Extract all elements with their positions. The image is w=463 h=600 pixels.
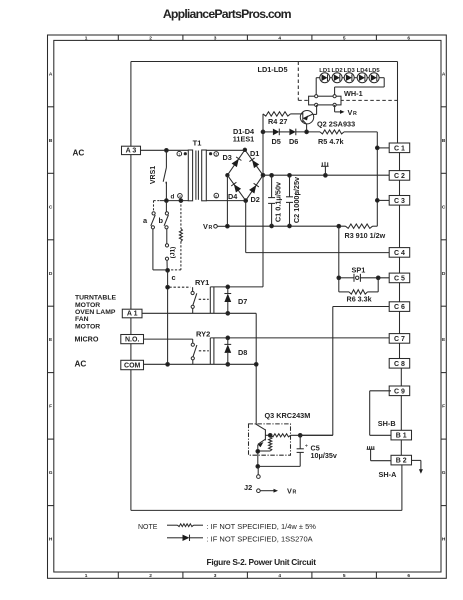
LEDs LD1-LD5 bbox=[316, 68, 380, 83]
svg-text:D2: D2 bbox=[251, 195, 260, 204]
node C2 cap top junction bbox=[288, 173, 292, 177]
terminal mark d pin 4 bbox=[171, 193, 183, 200]
svg-text:H: H bbox=[442, 537, 446, 543]
label R6 3.3k bbox=[347, 294, 372, 303]
svg-text:5: 5 bbox=[343, 573, 346, 579]
label MICRO bbox=[75, 335, 99, 344]
main circuit box right edge bbox=[397, 62, 399, 144]
transistor Q2 2SA933 bbox=[291, 105, 317, 132]
svg-text:C2 1000μ/25v: C2 1000μ/25v bbox=[292, 176, 301, 223]
svg-text:1: 1 bbox=[85, 573, 88, 579]
label RY1 bbox=[195, 278, 209, 287]
node COM c junction bbox=[166, 362, 170, 366]
svg-text:R5 4.7k: R5 4.7k bbox=[318, 137, 344, 146]
svg-text:C 8: C 8 bbox=[394, 361, 405, 368]
resistor R4 27 bbox=[263, 112, 291, 116]
diode D5 bbox=[273, 129, 279, 136]
wire RY2 coil top rail to C7 bbox=[210, 337, 389, 339]
label RY2 bbox=[196, 329, 210, 338]
svg-text:COM: COM bbox=[124, 363, 141, 370]
capacitor C1 0.1u/50v bbox=[268, 175, 275, 226]
label D1 bbox=[250, 149, 259, 158]
main circuit box bottom edge bbox=[131, 509, 402, 511]
jumper J1 dashed alternate path bbox=[169, 201, 183, 270]
node bridge AC bottom junction bbox=[244, 199, 248, 203]
node bridge DC right junction bbox=[261, 173, 265, 177]
svg-text:R3 910 1/2w: R3 910 1/2w bbox=[345, 231, 386, 240]
svg-text:2: 2 bbox=[149, 573, 152, 579]
relay RY2 actuation dashes bbox=[199, 350, 209, 352]
wire A3 to transformer primary top bbox=[141, 149, 189, 151]
svg-text:3: 3 bbox=[214, 573, 217, 579]
capacitor C2 1000u/25v bbox=[286, 175, 297, 226]
wire bridge right corner vertical bbox=[262, 114, 264, 287]
node c top junction bbox=[166, 268, 170, 272]
node J2 top junction bbox=[256, 465, 260, 469]
svg-text:RY2: RY2 bbox=[196, 329, 210, 338]
label D7 bbox=[238, 297, 247, 306]
svg-text:F: F bbox=[442, 404, 445, 410]
svg-text:b: b bbox=[159, 216, 164, 225]
svg-text:LD1: LD1 bbox=[319, 68, 331, 74]
switch contact a bbox=[151, 201, 166, 270]
node A3 rail junction bbox=[165, 148, 169, 152]
wire NO rail bbox=[144, 339, 193, 343]
svg-text:RY1: RY1 bbox=[195, 278, 209, 287]
label D4 bbox=[228, 192, 238, 201]
svg-text:V: V bbox=[287, 486, 292, 495]
connector NO bbox=[121, 335, 144, 344]
connector B1 bbox=[391, 430, 412, 440]
wire R5 C1 C3 R3 vertical bbox=[376, 132, 378, 226]
svg-text:4: 4 bbox=[179, 195, 181, 199]
label R5 4.7k bbox=[318, 137, 344, 146]
svg-text:T1: T1 bbox=[193, 139, 202, 148]
svg-text:F: F bbox=[49, 404, 52, 410]
connector chain wires bbox=[398, 143, 402, 510]
svg-text:C 1: C 1 bbox=[394, 145, 405, 152]
svg-text:D7: D7 bbox=[238, 297, 247, 306]
svg-text:3: 3 bbox=[214, 36, 217, 42]
svg-text:3: 3 bbox=[215, 153, 217, 157]
wire Q3 emitter to C5 bottom bbox=[258, 465, 300, 467]
node J1 dashed branch junction bbox=[179, 199, 183, 203]
svg-text:WH-1: WH-1 bbox=[344, 89, 363, 98]
node C5 top junction bbox=[298, 433, 302, 437]
wire relay feed vertical bbox=[255, 313, 257, 425]
frame grid coordinates bbox=[49, 36, 446, 580]
terminal VR bbox=[203, 222, 217, 231]
wire RY1 coil top rail bbox=[210, 286, 263, 288]
svg-text:LD1-LD5: LD1-LD5 bbox=[258, 65, 288, 74]
terminal mark pin 3 bbox=[210, 152, 219, 157]
label a bbox=[143, 216, 148, 225]
note legend bbox=[138, 524, 158, 531]
wire A1 rail bbox=[142, 312, 256, 314]
wire B2 to chassis arrow bbox=[412, 460, 423, 473]
wire C1 connector tap bbox=[377, 147, 389, 149]
svg-text:R4 27: R4 27 bbox=[268, 117, 287, 126]
svg-text:10μ/35v: 10μ/35v bbox=[311, 451, 337, 460]
svg-text:LD2: LD2 bbox=[332, 68, 344, 74]
svg-text:A 3: A 3 bbox=[126, 147, 137, 154]
label AC upper bbox=[73, 148, 85, 157]
main circuit box left edge bbox=[130, 62, 132, 511]
label Q2 2SA933 bbox=[317, 120, 355, 129]
transistor Q3 bbox=[256, 424, 271, 466]
capacitor C5 10u/35v bbox=[297, 435, 308, 466]
label SH-B bbox=[378, 419, 396, 428]
svg-text:NOTE: NOTE bbox=[138, 524, 158, 531]
svg-text:SP1: SP1 bbox=[352, 265, 366, 274]
svg-text:R: R bbox=[293, 489, 297, 495]
node C1 tap junction bbox=[375, 146, 379, 150]
svg-text:C 6: C 6 bbox=[394, 304, 405, 311]
wire secondary top to bridge bbox=[206, 149, 245, 151]
svg-text:4: 4 bbox=[278, 36, 281, 42]
svg-text:D5: D5 bbox=[272, 137, 281, 146]
node bridge positive feed at D5 rail bbox=[261, 130, 265, 134]
svg-text:B: B bbox=[49, 138, 53, 144]
node D8 cathode junction bbox=[226, 362, 230, 366]
label C1 0.1u/50v bbox=[273, 181, 282, 222]
svg-text:+: + bbox=[305, 444, 308, 450]
svg-text:1: 1 bbox=[178, 152, 180, 156]
svg-text:D3: D3 bbox=[223, 153, 232, 162]
resistor R5 4.7k bbox=[320, 130, 377, 134]
wire J2 to VR arrow bbox=[260, 489, 278, 493]
svg-text:MOTOR: MOTOR bbox=[75, 323, 100, 330]
svg-text:6: 6 bbox=[407, 36, 410, 42]
connector C4 bbox=[389, 248, 410, 258]
resistor R6 3.3k bbox=[339, 278, 378, 294]
label R3 910 1/2w bbox=[345, 231, 386, 240]
svg-text:LD5: LD5 bbox=[369, 68, 381, 74]
svg-text:MICRO: MICRO bbox=[75, 335, 99, 344]
label WH-1 bbox=[344, 89, 363, 98]
svg-text:D8: D8 bbox=[238, 348, 247, 357]
wire c to RY1 contact dashed bbox=[169, 287, 192, 291]
node COM relay feed junction bbox=[254, 362, 258, 366]
node D7 cathode junction bbox=[226, 311, 230, 315]
connector COM bbox=[121, 360, 144, 369]
svg-text:V: V bbox=[203, 222, 208, 231]
node Q3 base node bbox=[268, 433, 272, 437]
diode D7 bbox=[224, 287, 231, 313]
label TURNTABLE MOTOR OVEN LAMP FAN MOTOR bbox=[75, 295, 116, 331]
svg-text:2: 2 bbox=[149, 36, 152, 42]
svg-text:FAN: FAN bbox=[75, 316, 89, 323]
svg-text:E: E bbox=[442, 337, 446, 343]
svg-text:G: G bbox=[49, 470, 53, 476]
node C1 cap top junction bbox=[270, 173, 274, 177]
ground symbol on C2 rail bbox=[321, 162, 329, 177]
note diode symbol bbox=[167, 535, 203, 541]
resistor Q3 base series bbox=[271, 434, 333, 437]
wire LED right to WH-1 bbox=[335, 78, 385, 97]
node SP1 left junction bbox=[337, 276, 341, 280]
svg-text:(J1): (J1) bbox=[170, 247, 177, 259]
relay contact RY1 bbox=[191, 291, 197, 313]
label D8 bbox=[238, 348, 247, 357]
digital transistor Q3 dashed box bbox=[249, 424, 291, 455]
switch contact b bbox=[164, 201, 168, 244]
wire SH-B loop bbox=[370, 391, 391, 436]
svg-text:J2: J2 bbox=[244, 483, 252, 492]
wire transformer primary bottom rail bbox=[154, 200, 189, 202]
label Q3 KRC243M bbox=[265, 411, 311, 420]
svg-text:C 3: C 3 bbox=[394, 198, 405, 205]
connector C9 bbox=[389, 386, 410, 396]
connector A1 bbox=[122, 309, 142, 318]
svg-text:C: C bbox=[442, 204, 446, 210]
svg-text:: IF NOT SPECIFIED, 1SS270A: : IF NOT SPECIFIED, 1SS270A bbox=[207, 534, 313, 543]
drawing frame inner border bbox=[54, 40, 441, 572]
relay coil RY2 bbox=[210, 338, 214, 364]
node c junction bbox=[166, 285, 170, 289]
label VRS1 bbox=[150, 166, 157, 184]
wire C3 connector tap bbox=[377, 199, 389, 201]
svg-text:G: G bbox=[442, 470, 446, 476]
svg-text:C 2: C 2 bbox=[394, 173, 405, 180]
diode D1 bbox=[249, 158, 259, 168]
wire WH-1 to VR arrow bbox=[335, 105, 345, 114]
main circuit box top edge bbox=[131, 61, 398, 63]
diode D2 bbox=[249, 183, 259, 193]
diode D8 bbox=[224, 338, 231, 364]
wire VR rail bbox=[217, 225, 345, 227]
note diode text bbox=[207, 534, 313, 543]
wire bridge left corner to VR rail bbox=[226, 175, 228, 226]
wire LED left to WH-1 bbox=[315, 78, 317, 97]
svg-text:5: 5 bbox=[343, 36, 346, 42]
connector WH-1 bbox=[309, 95, 341, 107]
label D2 bbox=[251, 195, 260, 204]
svg-text:C 5: C 5 bbox=[394, 276, 405, 283]
node C3 tap junction bbox=[375, 199, 379, 203]
svg-text:H: H bbox=[49, 537, 53, 543]
jumper J1 terminals bbox=[165, 244, 168, 269]
diode D6 bbox=[289, 129, 295, 136]
svg-text:C 7: C 7 bbox=[394, 336, 405, 343]
svg-text:B 1: B 1 bbox=[396, 433, 407, 440]
label C5 10u/35v bbox=[311, 443, 337, 460]
svg-text:D4: D4 bbox=[228, 192, 238, 201]
note resistor symbol bbox=[167, 524, 203, 527]
svg-text:AC: AC bbox=[73, 148, 85, 157]
svg-text:a: a bbox=[143, 216, 148, 225]
node Q3 emitter junction bbox=[256, 449, 260, 453]
svg-text:A: A bbox=[442, 71, 446, 77]
label T1 bbox=[193, 139, 202, 148]
label SH-A bbox=[379, 470, 398, 479]
connector C3 bbox=[389, 196, 410, 206]
svg-text:N.O.: N.O. bbox=[125, 337, 139, 344]
svg-text:AppliancePartsPros.com: AppliancePartsPros.com bbox=[163, 7, 292, 21]
svg-text:OVEN LAMP: OVEN LAMP bbox=[75, 309, 116, 316]
svg-text:4: 4 bbox=[278, 573, 281, 579]
connector C7 bbox=[389, 334, 410, 344]
diode D3 bbox=[232, 157, 242, 167]
label D3 bbox=[223, 153, 232, 162]
label D5 bbox=[272, 137, 281, 146]
node D7 anode junction bbox=[226, 285, 230, 289]
terminal J2 bbox=[257, 466, 261, 492]
relay coil RY1 bbox=[210, 287, 214, 313]
svg-text:c: c bbox=[172, 273, 176, 282]
terminal mark pin 6 bbox=[214, 193, 219, 198]
svg-text:C 4: C 4 bbox=[394, 250, 405, 257]
svg-text:A: A bbox=[49, 71, 53, 77]
svg-text:SH-A: SH-A bbox=[379, 470, 398, 479]
node C1 bottom junction bbox=[270, 224, 274, 228]
node VR bridge junction bbox=[226, 224, 230, 228]
wire C4 rail SP1 vertical bbox=[338, 226, 340, 278]
label c bbox=[172, 273, 176, 282]
svg-text:B 2: B 2 bbox=[396, 458, 407, 465]
svg-text:C1 0.1μ/50v: C1 0.1μ/50v bbox=[273, 181, 282, 222]
connector C2 bbox=[389, 171, 410, 181]
svg-text:LD4: LD4 bbox=[357, 68, 369, 74]
connector C1 bbox=[389, 143, 410, 153]
wire bridge bottom to C4 rail bbox=[246, 201, 390, 253]
svg-text:: IF NOT SPECIFIED, 1/4w ± 5%: : IF NOT SPECIFIED, 1/4w ± 5% bbox=[207, 522, 317, 531]
connector C5 bbox=[389, 273, 410, 283]
diode D4 bbox=[231, 182, 241, 192]
transformer T1 core bbox=[196, 151, 199, 200]
wire C2 rail bbox=[263, 174, 389, 176]
svg-text:d: d bbox=[171, 193, 175, 200]
resistor Q3 base-emitter bbox=[258, 437, 272, 451]
node SP1 feed junction bbox=[337, 224, 341, 228]
svg-text:LD3: LD3 bbox=[344, 68, 356, 74]
connector C8 bbox=[389, 359, 410, 369]
terminal mark pin 1 bbox=[177, 151, 186, 156]
svg-text:R: R bbox=[209, 225, 213, 231]
LED assembly dashed outline bbox=[298, 62, 397, 101]
ground symbol at B2 bbox=[367, 446, 391, 461]
svg-text:11ES1: 11ES1 bbox=[233, 135, 255, 144]
label R4 27 bbox=[268, 117, 287, 126]
transformer T1 primary winding bbox=[188, 150, 192, 201]
label J2 bbox=[244, 483, 252, 492]
label b bbox=[159, 216, 164, 225]
node SP1 right junction bbox=[376, 276, 380, 280]
svg-text:A 1: A 1 bbox=[127, 311, 138, 318]
label VR at J2 bbox=[287, 486, 297, 495]
svg-text:E: E bbox=[49, 337, 53, 343]
wire C6 feed bbox=[300, 307, 389, 436]
spark gap SP1 bbox=[339, 274, 389, 282]
label AC lower bbox=[75, 360, 87, 369]
svg-text:D: D bbox=[49, 271, 53, 277]
relay contact RY2 bbox=[191, 343, 197, 364]
svg-text:VRS1: VRS1 bbox=[150, 166, 157, 184]
watermark AppliancePartsPros.com bbox=[163, 7, 292, 21]
connector C6 bbox=[389, 302, 410, 312]
varistor VRS1 bbox=[163, 150, 166, 200]
svg-text:1: 1 bbox=[85, 36, 88, 42]
label D6 bbox=[289, 137, 298, 146]
wire COM rail bbox=[144, 363, 257, 365]
transformer T1 secondary winding bbox=[202, 150, 207, 201]
wire c vertical bbox=[167, 270, 169, 364]
node C2 bottom junction bbox=[288, 224, 292, 228]
node primary bottom junction bbox=[165, 199, 169, 203]
wire D5 D6 rail bbox=[263, 131, 320, 133]
label SP1 bbox=[352, 265, 366, 274]
svg-text:R6 3.3k: R6 3.3k bbox=[347, 294, 372, 303]
resistor R3 910 1/2w bbox=[346, 224, 378, 228]
svg-text:SH-B: SH-B bbox=[378, 419, 396, 428]
label (J1) bbox=[170, 247, 177, 259]
svg-text:D6: D6 bbox=[289, 137, 298, 146]
svg-text:6: 6 bbox=[215, 194, 217, 198]
note resistor text bbox=[207, 522, 317, 531]
bridge rectifier D1-D4 outline bbox=[226, 148, 263, 201]
svg-text:R: R bbox=[353, 111, 357, 117]
connector B2 bbox=[391, 455, 412, 465]
svg-text:D: D bbox=[442, 271, 446, 277]
connector A3 bbox=[122, 146, 141, 154]
svg-text:B: B bbox=[442, 138, 446, 144]
node D8 anode junction bbox=[226, 336, 230, 340]
caption Figure S-2 Power Unit Circuit bbox=[207, 557, 317, 567]
label C2 1000u/25v bbox=[292, 176, 301, 223]
label D1-D4 11ES1 bbox=[233, 127, 255, 143]
node Q2 collector junction bbox=[305, 130, 309, 134]
svg-text:C 9: C 9 bbox=[394, 388, 405, 395]
frame tick marks bbox=[48, 35, 447, 578]
label LD1-LD5 bbox=[258, 65, 288, 74]
svg-text:C: C bbox=[49, 204, 53, 210]
svg-text:Q2 2SA933: Q2 2SA933 bbox=[317, 120, 355, 129]
wire secondary bottom to bridge bbox=[206, 200, 245, 202]
svg-text:D1: D1 bbox=[250, 149, 259, 158]
drawing frame outer border bbox=[48, 35, 447, 578]
svg-text:Figure S-2. Power Unit Circuit: Figure S-2. Power Unit Circuit bbox=[207, 557, 317, 567]
svg-text:6: 6 bbox=[407, 573, 410, 579]
svg-text:V: V bbox=[348, 108, 353, 117]
relay RY1 actuation dashes bbox=[199, 298, 209, 300]
svg-text:TURNTABLE: TURNTABLE bbox=[75, 295, 116, 302]
svg-text:MOTOR: MOTOR bbox=[75, 302, 100, 309]
svg-text:AC: AC bbox=[75, 360, 87, 369]
svg-text:Q3 KRC243M: Q3 KRC243M bbox=[265, 411, 311, 420]
label VR at WH-1 bbox=[348, 108, 358, 117]
